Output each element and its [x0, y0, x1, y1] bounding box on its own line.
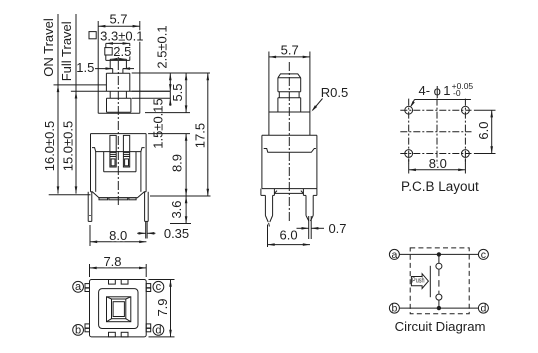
plunger flange step (front): [106, 73, 129, 91]
svg-text:16.0±0.5: 16.0±0.5: [42, 121, 57, 172]
full travel reference line: [71, 90, 170, 92]
bottom view body outline: [90, 280, 147, 337]
dimension 5.7 (front top width): [98, 12, 140, 114]
dimension 7.9 (bottom view height): [149, 280, 175, 337]
ON travel reference line: [54, 84, 107, 86]
svg-text:1.5±0.15: 1.5±0.15: [151, 98, 166, 149]
switch moving contact (dashed): [438, 270, 440, 294]
terminal tab d (right bottom): [146, 324, 151, 332]
right pin (side): [306, 195, 313, 221]
svg-text:Full Travel: Full Travel: [59, 21, 74, 81]
svg-text:0.7: 0.7: [328, 221, 346, 236]
dimension 0.35 (leg thickness): [137, 226, 189, 241]
ON Travel label: [41, 18, 56, 77]
right leg (front): [145, 192, 149, 222]
caption P.C.B Layout: [401, 179, 479, 194]
dimension 1.5±0.15 (travel): [151, 91, 172, 148]
body bottom extension line left: [49, 194, 91, 196]
extension line body bottom right: [150, 195, 211, 197]
dimension 3.6 (leg length): [169, 196, 187, 224]
recessed bottom line between legs (side): [274, 191, 303, 194]
dimension 7.8 (bottom view width): [90, 254, 147, 277]
svg-text:d: d: [480, 303, 486, 315]
actuator bar: [429, 266, 431, 297]
push arrow: [411, 274, 428, 289]
dimension text 2.5: [113, 44, 131, 59]
svg-text:5.7: 5.7: [281, 43, 299, 58]
dimension 17.5 (total height): [193, 73, 210, 196]
svg-text:d: d: [155, 324, 161, 336]
svg-text:ON Travel: ON Travel: [41, 18, 56, 77]
svg-text:2.5: 2.5: [113, 44, 131, 59]
svg-text:-0: -0: [453, 88, 461, 98]
label R0.5 with leader: [312, 85, 349, 112]
terminal label c: [153, 281, 164, 293]
dimension 5.7 (side top width): [269, 43, 310, 136]
right leg shoulder (side): [303, 189, 317, 196]
dimension 2.5 arrows: [110, 58, 126, 61]
svg-text:3.6: 3.6: [169, 200, 184, 218]
svg-text:a: a: [391, 249, 397, 261]
svg-text:3.3±0.1: 3.3±0.1: [100, 29, 143, 44]
node bottom junction: [437, 306, 440, 309]
extension line body top right: [148, 133, 190, 135]
dimension 6.0 (hole pitch vertical): [474, 110, 496, 153]
switch fixed contact top: [436, 254, 442, 269]
svg-text:15.0±0.5: 15.0±0.5: [61, 121, 76, 172]
svg-text:6.0: 6.0: [476, 122, 491, 140]
hole top-right: [462, 106, 470, 114]
svg-text:4-: 4-: [419, 83, 431, 98]
dashed switch enclosure box: [410, 248, 469, 314]
plunger neck (front): [110, 59, 126, 68]
svg-text:P.C.B Layout: P.C.B Layout: [401, 179, 479, 194]
label 4-phi1 +0.05/-0 with leader: [410, 81, 473, 107]
svg-text:b: b: [391, 303, 397, 315]
inner frame (bottom view): [99, 289, 138, 329]
dimension 0.7 (pin thickness): [297, 221, 347, 236]
svg-text:17.5: 17.5: [193, 123, 208, 148]
svg-text:Circuit Diagram: Circuit Diagram: [395, 319, 486, 334]
dimension 6.0 (side leg span): [268, 225, 311, 248]
plunger step (side): [278, 98, 301, 112]
svg-text:5.5: 5.5: [170, 83, 185, 101]
node top junction: [437, 253, 440, 256]
plunger step3 (front): [110, 91, 126, 98]
bottom pads (front): [99, 198, 136, 200]
switch body outline (front): [91, 134, 147, 198]
right contact slot (front): [123, 135, 129, 167]
body interior walls (front): [96, 152, 141, 192]
top edge tabs (bottom view): [109, 280, 129, 285]
extension line flange bottom right: [132, 90, 171, 92]
terminal label b: [73, 324, 84, 336]
dimension 8.0 (front leg span): [90, 225, 146, 246]
svg-text:1.5: 1.5: [76, 60, 94, 75]
left contact slot (front): [110, 135, 116, 167]
svg-text:b: b: [75, 324, 81, 336]
svg-text:6.0: 6.0: [280, 227, 298, 242]
svg-text:2.5±0.1: 2.5±0.1: [154, 25, 169, 68]
svg-text:a: a: [75, 281, 82, 293]
terminal c: [478, 249, 488, 261]
dimension 1.5 label and arrows: [76, 60, 134, 75]
plunger cap (front): [106, 43, 130, 60]
terminal tab a (left top): [85, 284, 90, 292]
dimension 3.3 arrows / plunger cap top: [106, 42, 130, 45]
terminal a: [389, 249, 399, 261]
switch fixed contact bottom: [436, 294, 442, 308]
plunger boss (front): [98, 112, 140, 114]
square symbol for 2.5 dim: [105, 48, 112, 55]
svg-text:1: 1: [443, 83, 450, 98]
dimension 15.0±0.5 (full travel height): [61, 14, 78, 194]
side view centerline: [288, 62, 290, 222]
svg-text:8.0: 8.0: [429, 156, 447, 171]
front view centerline: [117, 46, 119, 205]
hole top-left: [405, 106, 413, 114]
Full Travel label: [59, 21, 74, 81]
terminal d: [478, 303, 488, 315]
svg-text:c: c: [481, 249, 486, 261]
dimension text 3.3±0.1: [100, 29, 143, 44]
hole bottom-left: [405, 150, 413, 158]
plunger neck (side): [278, 92, 301, 98]
wire a to c (top): [399, 253, 478, 255]
svg-text:R0.5: R0.5: [321, 85, 348, 100]
svg-text:c: c: [156, 281, 162, 293]
square symbol for 3.3 dim: [89, 32, 96, 39]
dimension 5.5 (plunger above body): [170, 73, 188, 113]
left pin (side): [265, 195, 272, 226]
right leg thin pin extension 0.35: [146, 221, 147, 238]
switch body outline (side): [262, 135, 317, 188]
svg-text:0.35: 0.35: [164, 226, 189, 241]
terminal b: [389, 303, 399, 315]
caption Circuit Diagram: [395, 319, 486, 334]
plunger stem 1.5 wide (front): [110, 69, 126, 74]
extension line leg end right: [170, 223, 191, 225]
svg-text:7.8: 7.8: [103, 254, 121, 269]
button bevel frame (bottom view): [107, 297, 131, 322]
terminal label d: [153, 324, 164, 336]
svg-text:8.0: 8.0: [109, 228, 127, 243]
left leg shoulder (side): [261, 189, 275, 196]
terminal label a: [73, 281, 84, 293]
terminal tab b (left bottom): [85, 324, 90, 332]
left leg (front): [88, 192, 92, 222]
extension line step3 bottom: [132, 97, 171, 99]
dimension 2.5±0.1 (right): [154, 25, 171, 91]
plunger step4 (front): [107, 98, 131, 112]
svg-text:Push: Push: [412, 278, 425, 285]
dimension 8.9 (body height): [170, 134, 188, 196]
svg-text:5.7: 5.7: [109, 12, 127, 27]
PCB grid centerlines: [400, 99, 471, 164]
bottom edge tabs (bottom view): [109, 332, 129, 337]
right pin thin extension lines 0.7: [309, 216, 312, 239]
wire b to d (bottom): [400, 307, 479, 309]
dimension 8.0 (hole pitch horizontal): [409, 156, 466, 174]
extension line boss top right: [145, 112, 190, 114]
terminal tab c (right top): [146, 284, 151, 292]
svg-text:ϕ: ϕ: [434, 84, 441, 99]
plunger cap (side): [278, 74, 301, 92]
extension line plunger flange top: [132, 72, 210, 74]
body interior step line (front): [92, 148, 145, 152]
svg-text:8.9: 8.9: [170, 154, 185, 172]
dimension 16.0±0.5 (ON travel height): [42, 14, 59, 194]
hole bottom-right: [462, 150, 470, 158]
svg-text:7.9: 7.9: [155, 298, 170, 316]
body interior step line (side): [264, 149, 316, 153]
boss top (side): [269, 111, 310, 113]
